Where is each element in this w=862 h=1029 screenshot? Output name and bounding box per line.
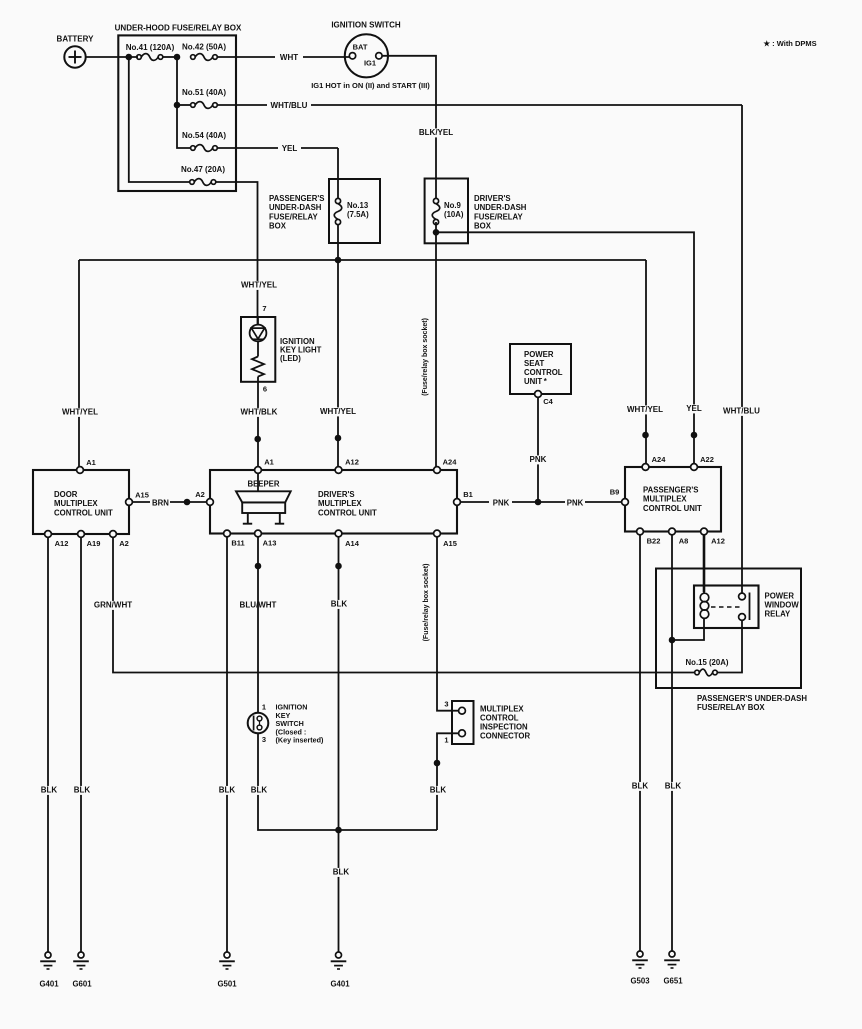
label BLK A14 bbox=[330, 600, 348, 609]
wire A12 door to G401 bbox=[47, 537, 49, 952]
svg-text:CONNECTOR: CONNECTOR bbox=[480, 732, 530, 741]
wire BRN bbox=[132, 501, 206, 503]
label A2 driver bbox=[195, 490, 205, 499]
svg-text:WINDOW: WINDOW bbox=[765, 601, 800, 610]
label A19 door bbox=[87, 539, 101, 548]
label POWER SEAT CONTROL UNIT* bbox=[524, 350, 563, 386]
pin A8 passenger bbox=[669, 528, 676, 535]
svg-text:WHT/YEL: WHT/YEL bbox=[62, 408, 98, 417]
label G501 bbox=[217, 980, 237, 989]
label G601 bbox=[72, 980, 92, 989]
label No.54 (40A) bbox=[182, 131, 226, 140]
ground G601 bbox=[73, 952, 89, 969]
label A14 driver bbox=[345, 539, 360, 548]
svg-text:1: 1 bbox=[444, 736, 448, 745]
svg-text:BLK: BLK bbox=[74, 786, 91, 795]
wire key switch to A14 wire bbox=[258, 733, 437, 830]
wire A14 down bbox=[338, 537, 340, 830]
svg-text:INSPECTION: INSPECTION bbox=[480, 723, 528, 732]
label No.47 (20A) bbox=[181, 165, 225, 174]
ignition key light box bbox=[241, 317, 275, 382]
svg-text:MULTIPLEX: MULTIPLEX bbox=[480, 705, 524, 714]
svg-text:A15: A15 bbox=[135, 491, 149, 500]
pin 1 key switch bbox=[262, 703, 266, 712]
svg-text:CONTROL: CONTROL bbox=[524, 368, 563, 377]
wire A19 door to G601 bbox=[80, 537, 82, 952]
label No.13 (7.5A) bbox=[347, 201, 369, 219]
fuse No.15 (20A) bbox=[695, 669, 718, 676]
svg-text:(LED): (LED) bbox=[280, 354, 301, 363]
label BLK A12 door bbox=[40, 786, 58, 795]
svg-text:A12: A12 bbox=[345, 458, 359, 467]
label BLK A19 door bbox=[73, 786, 91, 795]
pin A24 driver bbox=[434, 467, 441, 474]
label No.41 (120A) bbox=[126, 43, 175, 52]
wire battery to under-hood box bbox=[86, 56, 138, 58]
relay contact bbox=[739, 593, 750, 621]
junction splice on A13 wire bbox=[255, 563, 261, 569]
junction battery feed bbox=[126, 54, 132, 60]
label A12 driver bbox=[345, 458, 359, 467]
label No.15 (20A) bbox=[686, 658, 729, 667]
svg-text:WHT/YEL: WHT/YEL bbox=[627, 405, 663, 414]
label G401 left bbox=[39, 980, 59, 989]
label PASSENGER'S UNDER-DASH FUSE/RELAY BOX bbox=[269, 194, 324, 231]
label IGNITION SWITCH bbox=[331, 21, 401, 30]
wire A14 to G401 bbox=[338, 830, 340, 952]
wire YEL down to fuse No.13 bbox=[337, 148, 339, 199]
svg-text:RELAY: RELAY bbox=[765, 610, 792, 619]
label BLK key switch wire bbox=[250, 786, 268, 795]
svg-text:GRN/WHT: GRN/WHT bbox=[94, 601, 132, 610]
svg-text:WHT/BLK: WHT/BLK bbox=[241, 408, 278, 417]
svg-text:B9: B9 bbox=[610, 488, 620, 497]
label A2 door bbox=[119, 539, 129, 548]
svg-text:B11: B11 bbox=[231, 539, 244, 548]
power window relay box bbox=[694, 586, 759, 629]
LED D1 bbox=[250, 317, 267, 341]
svg-text:G401: G401 bbox=[39, 980, 59, 989]
label No.9 (10A) bbox=[444, 201, 464, 219]
svg-text:A1: A1 bbox=[264, 458, 274, 467]
fuse No.47 (20A) bbox=[190, 179, 216, 186]
svg-text:A13: A13 bbox=[263, 539, 277, 548]
wire bus to door A1 bbox=[78, 260, 80, 467]
label BLK above G401 bbox=[332, 868, 350, 877]
svg-text:A2: A2 bbox=[195, 490, 205, 499]
label A12 passenger bbox=[711, 537, 725, 546]
pin B9 passenger bbox=[622, 499, 629, 506]
label YEL bbox=[282, 144, 298, 153]
label A1 driver bbox=[264, 458, 274, 467]
pin A22 passenger bbox=[691, 464, 698, 471]
svg-text:MULTIPLEX: MULTIPLEX bbox=[318, 499, 362, 508]
svg-text:No.9: No.9 bbox=[444, 201, 462, 210]
wire A13 to ignition key switch bbox=[257, 537, 259, 713]
svg-text:3: 3 bbox=[444, 700, 448, 709]
svg-text:A24: A24 bbox=[652, 455, 667, 464]
svg-text:A12: A12 bbox=[55, 539, 69, 548]
svg-text:BOX: BOX bbox=[269, 222, 287, 231]
label A1 door bbox=[86, 458, 96, 467]
pin A19 door bbox=[78, 531, 85, 538]
svg-text:A14: A14 bbox=[345, 539, 360, 548]
svg-text:BLK: BLK bbox=[333, 868, 350, 877]
vertical note fuse/relay box socket (lower) bbox=[423, 564, 430, 642]
svg-text:PASSENGER'S: PASSENGER'S bbox=[643, 486, 698, 495]
svg-text:No.13: No.13 bbox=[347, 201, 369, 210]
label A22 passenger bbox=[700, 455, 714, 464]
wire B11 to G501 bbox=[226, 537, 228, 952]
fuse No.51 (40A) bbox=[191, 102, 218, 109]
junction splice on BRN wire bbox=[184, 499, 190, 505]
svg-text:B1: B1 bbox=[463, 490, 473, 499]
junction coil return on A8 wire bbox=[669, 637, 675, 643]
label WHT/YEL right bbox=[627, 405, 663, 414]
svg-text:PASSENGER'S UNDER-DASH: PASSENGER'S UNDER-DASH bbox=[697, 694, 807, 703]
svg-text:1: 1 bbox=[262, 703, 266, 712]
power bus wire bbox=[79, 259, 646, 261]
svg-text:CONTROL UNIT: CONTROL UNIT bbox=[643, 504, 702, 513]
label BAT bbox=[353, 43, 368, 52]
junction splice on connector wire bbox=[434, 760, 440, 766]
beeper bbox=[236, 473, 291, 523]
label B11 driver bbox=[231, 539, 244, 548]
pin A15 door bbox=[126, 499, 133, 506]
label A15 door bbox=[135, 491, 149, 500]
pin A12 driver bbox=[335, 467, 342, 474]
junction No.51 tap bbox=[174, 102, 180, 108]
wire No.9 to passenger A22 bbox=[436, 232, 694, 463]
wire PNK B1 to B9 bbox=[460, 501, 621, 503]
ground G503 bbox=[632, 951, 648, 968]
svg-text:7: 7 bbox=[262, 304, 266, 313]
svg-text:UNIT *: UNIT * bbox=[524, 377, 548, 386]
label MULTIPLEX CONTROL INSPECTION CONNECTOR bbox=[480, 705, 530, 741]
fuse No.41 (120A) bbox=[137, 54, 174, 61]
svg-text:MULTIPLEX: MULTIPLEX bbox=[54, 499, 98, 508]
svg-text:IG1: IG1 bbox=[364, 59, 376, 68]
driver's multiplex control unit bbox=[210, 470, 457, 534]
label A24 passenger bbox=[652, 455, 667, 464]
label A15 driver bbox=[443, 539, 457, 548]
svg-text:(Fuse/relay box socket): (Fuse/relay box socket) bbox=[422, 318, 429, 396]
fuse No.54 (40A) bbox=[191, 145, 218, 152]
label GRN/WHT bbox=[93, 601, 133, 610]
wire fuse No.13 to power bus bbox=[337, 224, 339, 260]
svg-text:A2: A2 bbox=[119, 539, 129, 548]
battery bbox=[64, 46, 85, 67]
svg-text:WHT/YEL: WHT/YEL bbox=[241, 281, 277, 290]
svg-text:A12: A12 bbox=[711, 537, 725, 546]
wire bus to driver A12 bbox=[337, 260, 339, 467]
svg-text:★ : With DPMS: ★ : With DPMS bbox=[763, 39, 816, 48]
label PASSENGER'S UNDER-DASH FUSE/RELAY BOX bottom bbox=[697, 694, 807, 712]
svg-text:No.42 (50A): No.42 (50A) bbox=[182, 43, 226, 52]
fuse No.42 (50A) bbox=[191, 54, 218, 61]
junction splice on A12 wire bbox=[335, 435, 341, 441]
svg-text:PNK: PNK bbox=[567, 499, 584, 508]
svg-text:FUSE/RELAY BOX: FUSE/RELAY BOX bbox=[697, 703, 765, 712]
wire GRN/WHT bus bbox=[113, 537, 695, 672]
label BEEPER bbox=[247, 480, 279, 489]
svg-text:PASSENGER'S: PASSENGER'S bbox=[269, 194, 324, 203]
label WHT/YEL on key light wire bbox=[241, 281, 277, 290]
label A12 door bbox=[55, 539, 69, 548]
junction splice on A24 wire bbox=[643, 432, 649, 438]
junction No.9 output bbox=[433, 230, 439, 236]
label PNK left bbox=[493, 499, 510, 508]
label WHT bbox=[280, 53, 298, 62]
pin 3 key switch bbox=[262, 735, 266, 744]
wire A12 to relay coil bbox=[703, 535, 706, 592]
relay coil bbox=[700, 586, 709, 629]
pin A24 passenger bbox=[642, 464, 649, 471]
svg-text:A8: A8 bbox=[679, 537, 689, 546]
svg-text:No.15 (20A): No.15 (20A) bbox=[686, 658, 729, 667]
svg-text:A15: A15 bbox=[443, 539, 457, 548]
label BLK B22 bbox=[631, 782, 649, 791]
svg-text:YEL: YEL bbox=[282, 144, 298, 153]
svg-text:MULTIPLEX: MULTIPLEX bbox=[643, 495, 687, 504]
ground G401 center bbox=[331, 952, 347, 969]
pin A13 driver bbox=[255, 530, 262, 537]
junction A14 ground join bbox=[336, 827, 342, 833]
svg-text:IGNITION SWITCH: IGNITION SWITCH bbox=[331, 21, 401, 30]
wire BLK/YEL from IG1 bbox=[382, 56, 436, 199]
label IGNITION KEY SWITCH bbox=[276, 703, 325, 745]
svg-text:No.41 (120A): No.41 (120A) bbox=[126, 43, 175, 52]
wire WHT bbox=[217, 56, 349, 58]
svg-text:A1: A1 bbox=[86, 458, 96, 467]
ground G401 left bbox=[40, 952, 56, 969]
wire bus to passenger A24 bbox=[645, 260, 647, 464]
label G651 bbox=[663, 977, 683, 986]
label UNDER-HOOD FUSE/RELAY BOX bbox=[115, 24, 242, 33]
driver's under-dash fuse/relay box (No.9) bbox=[425, 179, 468, 244]
label G503 bbox=[630, 977, 650, 986]
svg-text:WHT: WHT bbox=[280, 53, 298, 62]
label PASSENGER'S MULTIPLEX CONTROL UNIT bbox=[643, 486, 702, 513]
svg-text:DOOR: DOOR bbox=[54, 490, 78, 499]
svg-text:PNK: PNK bbox=[530, 455, 547, 464]
junction power seat on PNK wire bbox=[535, 499, 541, 505]
power seat control unit bbox=[510, 344, 571, 394]
pin 6 bbox=[263, 385, 267, 394]
svg-text:BLK: BLK bbox=[331, 600, 348, 609]
label BLK A8 bbox=[664, 782, 682, 791]
ground G651 bbox=[664, 951, 680, 968]
wire WHT/BLK to driver A1 bbox=[257, 382, 259, 467]
resistor in key light bbox=[252, 341, 264, 382]
pin B11 driver bbox=[224, 530, 231, 537]
label BRN bbox=[152, 499, 169, 508]
wire A15 down to connector bbox=[437, 537, 459, 711]
svg-text:G401: G401 bbox=[330, 980, 350, 989]
ground G501 bbox=[219, 952, 235, 969]
svg-text:A24: A24 bbox=[443, 458, 458, 467]
label BATTERY bbox=[57, 35, 95, 44]
pin 7 bbox=[262, 304, 266, 313]
wire PNK power seat down bbox=[537, 397, 539, 502]
pin A12 door bbox=[45, 531, 52, 538]
label WHT/YEL left bbox=[62, 408, 98, 417]
svg-text:No.54 (40A): No.54 (40A) bbox=[182, 131, 226, 140]
junction splice on A22 wire bbox=[691, 432, 697, 438]
svg-text:(10A): (10A) bbox=[444, 210, 464, 219]
wire YEL bbox=[217, 147, 338, 149]
svg-text:DRIVER'S: DRIVER'S bbox=[318, 490, 355, 499]
label WHT/BLU right bbox=[723, 407, 761, 416]
junction splice on WHT/BLK wire bbox=[255, 436, 261, 442]
svg-text:6: 6 bbox=[263, 385, 267, 394]
svg-text:BEEPER: BEEPER bbox=[247, 480, 279, 489]
label B22 passenger bbox=[647, 537, 661, 546]
svg-text:No.51 (40A): No.51 (40A) bbox=[182, 88, 226, 97]
label G401 center bbox=[330, 980, 350, 989]
label POWER WINDOW RELAY bbox=[765, 592, 800, 619]
pin A2 door bbox=[110, 531, 117, 538]
svg-text:BLK: BLK bbox=[430, 786, 447, 795]
label DRIVER'S MULTIPLEX CONTROL UNIT bbox=[318, 490, 377, 517]
svg-text:DRIVER'S: DRIVER'S bbox=[474, 194, 511, 203]
svg-text:POWER: POWER bbox=[765, 592, 795, 601]
label A13 driver bbox=[263, 539, 277, 548]
under-hood fuse/relay box bbox=[118, 35, 236, 191]
label BLU/WHT bbox=[239, 601, 277, 610]
label A8 passenger bbox=[679, 537, 689, 546]
pin A15 driver bbox=[434, 530, 441, 537]
wire No.47 out down to key light bbox=[216, 182, 258, 325]
label BLK connector wire bbox=[429, 786, 447, 795]
svg-text:UNDER-DASH: UNDER-DASH bbox=[474, 203, 527, 212]
label 3 connector bbox=[444, 700, 448, 709]
pin B22 passenger bbox=[637, 528, 644, 535]
wire connector pin1 down bbox=[437, 733, 459, 830]
label WHT/BLK bbox=[240, 408, 278, 417]
svg-text:BLK/YEL: BLK/YEL bbox=[419, 128, 453, 137]
label A24 driver bbox=[443, 458, 458, 467]
note With DPMS bbox=[763, 39, 816, 48]
note IG1 HOT in ON (II) and START (III) bbox=[311, 81, 430, 90]
pin B1 driver bbox=[454, 499, 461, 506]
svg-text:BOX: BOX bbox=[474, 222, 492, 231]
label DRIVER'S UNDER-DASH FUSE/RELAY BOX bbox=[474, 194, 527, 231]
wire No.9 down to driver A24 bbox=[435, 222, 437, 467]
svg-text:WHT/BLU: WHT/BLU bbox=[723, 407, 760, 416]
svg-text:G601: G601 bbox=[72, 980, 92, 989]
wire relay contact to fuse No.15 bbox=[717, 620, 742, 672]
svg-text:3: 3 bbox=[262, 735, 266, 744]
wire WHT/BLU horizontal bbox=[217, 104, 742, 106]
ignition switch bbox=[345, 34, 388, 77]
svg-text:BLK: BLK bbox=[251, 786, 268, 795]
svg-text:BAT: BAT bbox=[353, 43, 368, 52]
passenger's multiplex control unit bbox=[625, 467, 721, 532]
label PNK right bbox=[567, 499, 584, 508]
label B9 passenger bbox=[610, 488, 620, 497]
label YEL on A22 wire bbox=[685, 404, 703, 413]
pin A12 passenger bbox=[701, 528, 708, 535]
svg-text:G501: G501 bbox=[217, 980, 237, 989]
svg-text:A22: A22 bbox=[700, 455, 714, 464]
svg-text:SEAT: SEAT bbox=[524, 359, 544, 368]
svg-text:(Key inserted): (Key inserted) bbox=[276, 736, 325, 745]
wire WHT/BLU right vertical to relay contact bbox=[741, 105, 743, 593]
svg-text:CONTROL UNIT: CONTROL UNIT bbox=[318, 508, 377, 517]
label IGNITION KEY LIGHT (LED) bbox=[280, 337, 322, 363]
label B1 driver bbox=[463, 490, 473, 499]
label IG1 bbox=[364, 59, 376, 68]
svg-text:B22: B22 bbox=[647, 537, 661, 546]
label PNK vertical wire bbox=[528, 455, 548, 464]
vertical note fuse/relay box socket (upper) bbox=[422, 318, 429, 396]
junction splice on A14 wire bbox=[336, 563, 342, 569]
svg-text:BATTERY: BATTERY bbox=[57, 35, 95, 44]
label WHT/BLU bbox=[271, 101, 308, 110]
pin 1 connector bbox=[459, 730, 466, 737]
pin A1 door bbox=[77, 467, 84, 474]
svg-text:BLK: BLK bbox=[632, 782, 649, 791]
label WHT/YEL on A12 wire bbox=[320, 407, 356, 416]
svg-text:UNDER-DASH: UNDER-DASH bbox=[269, 203, 322, 212]
pin A2 driver bbox=[207, 499, 214, 506]
svg-text:(7.5A): (7.5A) bbox=[347, 210, 369, 219]
junction No.13 on bus bbox=[335, 257, 341, 263]
fuse No.9 (10A) bbox=[432, 198, 440, 224]
label DOOR MULTIPLEX CONTROL UNIT bbox=[54, 490, 113, 517]
label BLK B11 bbox=[218, 786, 236, 795]
pin A1 driver bbox=[255, 467, 262, 474]
svg-text:G503: G503 bbox=[630, 977, 650, 986]
svg-text:A19: A19 bbox=[87, 539, 101, 548]
label No.51 (40A) bbox=[182, 88, 226, 97]
svg-text:BLK: BLK bbox=[219, 786, 236, 795]
wire relay coil to A8 bbox=[672, 628, 704, 640]
svg-text:BRN: BRN bbox=[152, 499, 169, 508]
wire B22 to G503 bbox=[639, 535, 641, 951]
wire A8 to G651 bbox=[671, 535, 673, 951]
wire battery bus down to No.47 bbox=[129, 57, 190, 182]
svg-text:C4: C4 bbox=[543, 397, 553, 406]
fuse No.13 (7.5A) bbox=[334, 198, 342, 224]
svg-text:WHT/YEL: WHT/YEL bbox=[320, 407, 356, 416]
label C4 bbox=[543, 397, 553, 406]
ignition key switch bbox=[248, 713, 269, 734]
svg-text:WHT/BLU: WHT/BLU bbox=[271, 101, 308, 110]
junction after No.41 bbox=[174, 54, 180, 60]
label No.42 (50A) bbox=[182, 43, 226, 52]
passenger's under-dash fuse/relay box (relay) bbox=[656, 569, 801, 689]
svg-text:(Fuse/relay box socket): (Fuse/relay box socket) bbox=[423, 564, 430, 642]
svg-text:CONTROL UNIT: CONTROL UNIT bbox=[54, 508, 113, 517]
pin A14 driver bbox=[335, 530, 342, 537]
svg-text:No.47 (20A): No.47 (20A) bbox=[181, 165, 225, 174]
relay mechanical link (dashed) bbox=[711, 606, 741, 608]
passenger's under-dash fuse/relay box (No.13) bbox=[329, 179, 380, 243]
label 1 connector bbox=[444, 736, 448, 745]
svg-text:BLK: BLK bbox=[665, 782, 682, 791]
svg-text:YEL: YEL bbox=[686, 404, 702, 413]
wire No.41 out to No.51/No.54 bbox=[177, 57, 191, 148]
svg-text:IG1 HOT in ON (II) and START (: IG1 HOT in ON (II) and START (III) bbox=[311, 81, 430, 90]
svg-text:UNDER-HOOD FUSE/RELAY BOX: UNDER-HOOD FUSE/RELAY BOX bbox=[115, 24, 242, 33]
svg-text:G651: G651 bbox=[663, 977, 683, 986]
svg-text:POWER: POWER bbox=[524, 350, 554, 359]
multiplex control inspection connector bbox=[452, 701, 474, 744]
svg-text:FUSE/RELAY: FUSE/RELAY bbox=[269, 212, 318, 221]
svg-text:FUSE/RELAY: FUSE/RELAY bbox=[474, 212, 523, 221]
